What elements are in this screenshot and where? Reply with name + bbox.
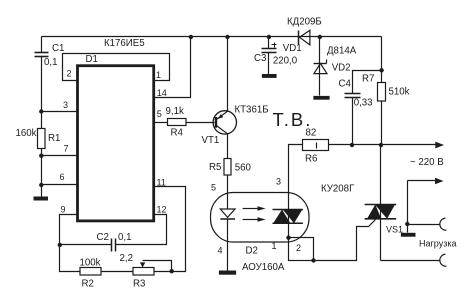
wire gate run to VS1	[314, 220, 376, 261]
capacitor C2	[112, 239, 116, 252]
svg-text:3: 3	[276, 177, 281, 187]
svg-text:9: 9	[61, 205, 66, 215]
wire R7 down	[381, 101, 383, 145]
svg-text:D2: D2	[246, 246, 258, 257]
wire collector down	[227, 134, 229, 159]
svg-text:220,0: 220,0	[273, 56, 298, 67]
svg-text:Т.В.: Т.В.	[273, 109, 313, 130]
ground	[401, 233, 416, 237]
svg-text:КУ208Г: КУ208Г	[321, 184, 355, 195]
svg-text:3: 3	[63, 100, 68, 110]
svg-text:C2: C2	[97, 232, 109, 243]
svg-text:510k: 510k	[389, 87, 410, 98]
svg-text:5: 5	[211, 183, 216, 193]
svg-text:2: 2	[296, 243, 301, 253]
svg-text:5: 5	[157, 109, 162, 119]
wire mains neutral node	[408, 178, 444, 233]
svg-text:9,1k: 9,1k	[166, 106, 184, 117]
wire left rail lower	[41, 149, 43, 197]
svg-text:C1: C1	[52, 43, 64, 54]
ground	[34, 197, 49, 201]
wire top right corner down	[381, 37, 383, 71]
resistor R6	[303, 140, 329, 151]
wire pin 5	[154, 122, 168, 124]
ground	[219, 271, 236, 275]
wire pin 9	[60, 215, 78, 245]
svg-text:D1: D1	[86, 54, 98, 65]
connector jack upper	[440, 218, 447, 230]
triac VS1	[365, 145, 397, 261]
svg-text:2,2: 2,2	[120, 253, 133, 264]
svg-text:14: 14	[157, 88, 167, 98]
wire R7 top	[381, 71, 383, 83]
svg-text:0,1: 0,1	[44, 57, 57, 68]
wire R5 to LED	[227, 176, 229, 210]
opto triac of D2	[273, 210, 303, 224]
svg-text:7: 7	[64, 144, 69, 154]
ground	[262, 74, 277, 78]
wire pin 3	[42, 111, 78, 113]
transistor Q1 VT1	[213, 111, 236, 134]
wire VD2 branch	[319, 37, 321, 96]
wire C3 stub	[268, 37, 270, 49]
svg-text:~ 220 В: ~ 220 В	[410, 157, 444, 168]
LED of D2	[220, 209, 235, 271]
svg-text:12: 12	[157, 205, 167, 215]
wire pin2 to pin1 loop over IC	[63, 54, 170, 81]
svg-text:КТ361Б: КТ361Б	[235, 105, 269, 116]
wire to C2 left	[60, 244, 112, 246]
wire pin 7	[42, 155, 78, 157]
connector jack lower	[440, 254, 447, 266]
svg-text:К176ИЕ5: К176ИЕ5	[104, 38, 145, 49]
svg-text:Нагрузка: Нагрузка	[419, 239, 456, 249]
svg-text:R1: R1	[48, 133, 60, 144]
wire C3 down	[268, 53, 270, 75]
svg-text:560: 560	[235, 163, 252, 174]
wire R4 to base	[187, 122, 215, 124]
svg-text:0,33: 0,33	[354, 98, 373, 109]
wire R3 to pin 11	[154, 187, 186, 272]
wire pins 1-2 rectangle of D2	[289, 238, 314, 261]
svg-text:1: 1	[272, 241, 277, 251]
svg-text:11: 11	[157, 178, 166, 188]
svg-text:R5: R5	[209, 162, 221, 173]
opto light arrows	[243, 206, 266, 221]
resistor R4	[168, 119, 187, 126]
wire left rail upper	[41, 37, 43, 53]
svg-text:VT1: VT1	[202, 135, 220, 146]
wire top rail	[42, 36, 382, 38]
wire C2 right to pin 12	[116, 215, 167, 245]
svg-text:VD2: VD2	[332, 63, 351, 74]
svg-text:R6: R6	[305, 154, 317, 165]
svg-text:R4: R4	[171, 128, 184, 139]
svg-text:R2: R2	[82, 279, 94, 290]
svg-text:АОУ160А: АОУ160А	[242, 262, 285, 273]
svg-text:C4: C4	[339, 79, 352, 90]
svg-text:R3: R3	[133, 279, 145, 290]
diode VD1	[299, 30, 310, 45]
svg-text:2: 2	[67, 69, 72, 79]
svg-text:0,1: 0,1	[118, 232, 131, 243]
IC U1 D1 body	[78, 66, 154, 221]
wire emitter up	[227, 37, 229, 112]
optocoupler D2 body	[211, 193, 310, 243]
resistor R3 potentiometer	[133, 261, 172, 276]
resistor R1	[38, 129, 46, 149]
resistor R7	[378, 83, 386, 102]
wire VS1 cathode to load	[381, 260, 441, 262]
svg-text:1: 1	[156, 70, 161, 80]
svg-text:100k: 100k	[80, 257, 101, 268]
wire C4 down	[352, 98, 354, 145]
capacitor C3	[262, 49, 277, 53]
svg-text:6: 6	[60, 172, 65, 182]
svg-text:VS1: VS1	[386, 225, 403, 235]
diode VD2 zener	[314, 60, 328, 74]
svg-text:КД209Б: КД209Б	[287, 17, 322, 28]
svg-text:160k: 160k	[16, 128, 37, 139]
wire left rail to R1	[41, 57, 43, 129]
wire pin 6	[42, 184, 78, 186]
svg-text:C3: C3	[254, 53, 266, 64]
resistor R5	[224, 159, 231, 176]
wire R6 to mains arrow	[329, 144, 437, 146]
wire C4 branch top	[353, 71, 382, 94]
capacitor C4	[345, 94, 361, 98]
resistor R2	[80, 268, 101, 276]
wire pin 14	[154, 37, 191, 98]
svg-text:Д814А: Д814А	[327, 46, 357, 57]
svg-text:4: 4	[218, 246, 223, 256]
wire R6 left and pin 3 of D2	[289, 145, 303, 238]
wire down to R2	[60, 245, 80, 272]
wire R2 to R3	[101, 271, 134, 273]
capacitor C1	[35, 53, 49, 57]
ground	[313, 96, 329, 100]
svg-text:VD1: VD1	[283, 43, 302, 54]
svg-text:R7: R7	[362, 74, 374, 85]
